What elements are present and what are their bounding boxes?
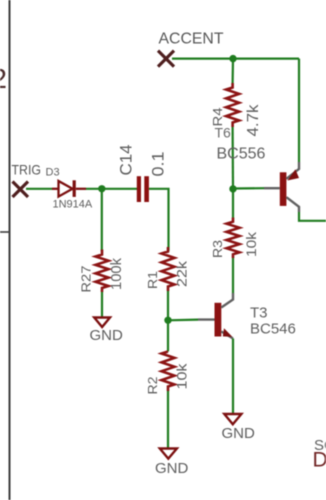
wire R27 to ground: [101, 292, 103, 317]
wire C14 right to corner and down to R1: [149, 189, 169, 251]
wire R3 top to junction: [232, 189, 234, 218]
transistor T6 emitter line: [286, 162, 299, 179]
svg-text:D3: D3: [46, 167, 60, 179]
junction node R3/R4/T6 base: [229, 185, 236, 192]
svg-text:ACCENT: ACCENT: [159, 31, 224, 48]
junction node at diode/C14/R27: [98, 185, 105, 192]
wire junction down to R27: [101, 189, 103, 251]
transistor T3 collector line: [221, 293, 233, 308]
wire junction to T6 base: [233, 187, 264, 190]
capacitor C14: [137, 176, 141, 202]
wire T3 emitter to ground: [232, 339, 234, 414]
ground symbol below R27: [94, 318, 110, 328]
pin stub T6 base: [264, 187, 280, 189]
transistor T3 emitter arrow: [223, 328, 233, 337]
wire T6 collector to right edge: [299, 212, 326, 221]
svg-text:2: 2: [0, 63, 7, 94]
frame tick mark: [0, 231, 10, 233]
svg-text:100k: 100k: [109, 257, 125, 290]
junction node R1/R2/base: [164, 317, 171, 324]
wire T6 emitter up to ACCENT rail: [298, 59, 300, 162]
wire R1 to junction: [167, 291, 169, 320]
pin stub T3 base: [198, 318, 215, 320]
wire T3 collector to R3: [232, 258, 234, 293]
wire ACCENT rail: [172, 57, 299, 59]
resistor R4: [226, 83, 239, 127]
junction node ACCENT/R4: [229, 55, 236, 62]
wire junction down to R2: [167, 320, 169, 351]
svg-text:GND: GND: [222, 425, 256, 442]
wire R2 to ground: [167, 391, 169, 448]
resistor R1: [162, 247, 175, 291]
svg-text:GND: GND: [155, 460, 189, 477]
resistor R27: [96, 250, 109, 293]
wire R4 bottom to junction: [232, 127, 235, 189]
wire diode to C14: [86, 188, 137, 190]
ground symbol below T3: [224, 414, 241, 424]
svg-text:R27: R27: [79, 266, 94, 293]
transistor T6 collector line: [286, 197, 299, 212]
svg-text:T3: T3: [250, 305, 268, 322]
ground symbol below R2: [160, 449, 177, 459]
diode D3: [52, 181, 86, 197]
svg-text:0.1: 0.1: [149, 152, 168, 177]
svg-text:GND: GND: [90, 327, 124, 344]
transistor T6 emitter arrow: [287, 169, 299, 180]
wire junction down to R4: [232, 59, 235, 83]
svg-text:D: D: [313, 449, 326, 472]
svg-text:10k: 10k: [243, 231, 259, 257]
svg-text:C14: C14: [117, 145, 136, 176]
svg-text:BC556: BC556: [217, 146, 266, 163]
svg-text:22k: 22k: [173, 260, 189, 287]
svg-text:R1: R1: [145, 271, 160, 289]
svg-text:10k: 10k: [173, 362, 189, 389]
resistor R3: [227, 218, 240, 259]
svg-text:TRIG: TRIG: [12, 162, 42, 178]
svg-text:R2: R2: [145, 377, 160, 395]
frame border vertical line: [9, 0, 11, 500]
svg-text:R3: R3: [210, 240, 225, 258]
svg-text:T6: T6: [215, 125, 232, 141]
wire TRIG to diode: [26, 188, 52, 190]
transistor T3 base bar: [215, 303, 222, 337]
net port ACCENT (X symbol): [158, 51, 174, 67]
transistor T6 base bar: [280, 172, 287, 206]
svg-text:4.7k: 4.7k: [245, 104, 262, 136]
transistor T3 emitter line: [221, 332, 233, 339]
svg-text:1N914A: 1N914A: [53, 199, 93, 211]
svg-text:BC546: BC546: [250, 321, 296, 338]
net port TRIG (X symbol): [13, 182, 29, 198]
wire junction to T3 base: [168, 319, 198, 322]
resistor R2: [162, 352, 175, 392]
